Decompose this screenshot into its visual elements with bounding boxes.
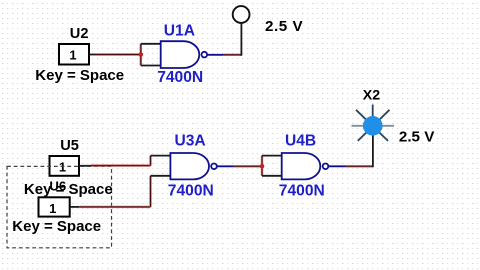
svg-text:7400N: 7400N — [279, 182, 325, 199]
wire U3A to U4B — [233, 165, 262, 167]
NAND gate U3A — [170, 153, 216, 179]
pin 1 of U1A — [141, 43, 161, 45]
pin 1 of U4B — [262, 155, 282, 157]
wire jog at U1A inputs — [140, 44, 142, 66]
svg-text:7400N: 7400N — [157, 69, 203, 86]
lamp X2 body — [363, 116, 383, 136]
pin 2 of U1A — [141, 65, 161, 67]
svg-text:2.5 V: 2.5 V — [399, 129, 435, 146]
svg-text:U4B: U4B — [285, 133, 316, 150]
wire vertical up to probe — [240, 23, 242, 56]
switch U6 — [39, 197, 80, 216]
wire U4B to lamp X2 — [345, 165, 373, 167]
wire U6 to U3A — [79, 206, 150, 208]
pin 2 of U4B — [262, 175, 282, 177]
svg-text:U5: U5 — [60, 138, 79, 154]
U3A output pin stub — [217, 165, 233, 167]
NAND gate U4B — [282, 153, 329, 179]
wire U2 to U1A — [93, 53, 141, 55]
voltage probe — [233, 6, 250, 23]
svg-text:U2: U2 — [70, 26, 89, 42]
junction at U4B input — [260, 164, 265, 169]
svg-text:U6: U6 — [49, 179, 66, 194]
wire U5 to U3A — [91, 164, 151, 166]
svg-text:U3A: U3A — [175, 133, 206, 150]
switch U2 — [59, 44, 93, 65]
svg-text:Key = Space: Key = Space — [12, 218, 101, 235]
pin 2 of U3A — [151, 175, 171, 177]
U4B output pin stub — [328, 165, 345, 167]
wire vertical up to lamp — [372, 134, 374, 167]
svg-text:1: 1 — [69, 47, 76, 62]
selection box (dashed) — [7, 166, 112, 247]
svg-text:Key = Space: Key = Space — [24, 181, 113, 198]
svg-text:7400N: 7400N — [168, 182, 214, 199]
wire jog up to U3A pin 2 — [149, 176, 151, 207]
svg-text:X2: X2 — [363, 87, 380, 103]
svg-text:U1A: U1A — [164, 22, 195, 39]
junction at U1A input — [139, 52, 144, 57]
svg-text:2.5 V: 2.5 V — [265, 18, 304, 35]
wire jog at U4B inputs — [261, 156, 263, 176]
wire jog up to U3A pin 1 — [149, 156, 151, 166]
lamp X2 rays — [352, 105, 395, 141]
NAND gate U1A — [161, 41, 207, 68]
svg-text:Key = Space: Key = Space — [35, 67, 124, 84]
U1A output pin stub — [207, 54, 224, 56]
pin 1 of U3A — [151, 155, 171, 157]
wire U1A to probe — [224, 54, 242, 56]
svg-text:1: 1 — [49, 201, 56, 216]
switch U5 — [50, 156, 92, 176]
